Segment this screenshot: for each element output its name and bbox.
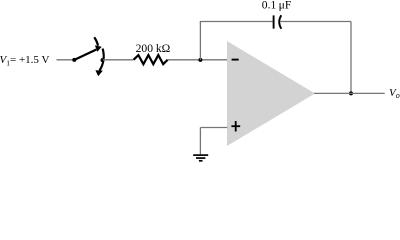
wire feedback top right bbox=[280, 21, 351, 23]
wire resistor to inverting input bbox=[168, 59, 228, 61]
ground bbox=[193, 155, 208, 161]
switch motion arc lower segment bbox=[100, 49, 104, 71]
wire source lead bbox=[57, 59, 75, 61]
node switch pivot bbox=[72, 58, 76, 62]
resistor R1 200k zigzag bbox=[134, 55, 168, 64]
node output junction bbox=[349, 91, 353, 95]
wire noninverting input horizontal bbox=[200, 127, 227, 129]
svg-text:200 kΩ: 200 kΩ bbox=[136, 42, 171, 55]
wire feedback top left bbox=[200, 21, 273, 23]
node switch right contact bbox=[101, 58, 105, 62]
wire feedback vertical right bbox=[350, 22, 352, 94]
op-amp minus sign bbox=[232, 59, 239, 61]
op-amp plus sign bbox=[231, 121, 240, 132]
switch blade arrow S1 bbox=[74, 45, 101, 60]
op-amp U1 triangle bbox=[227, 41, 315, 146]
switch motion arc upper segment bbox=[94, 37, 98, 45]
wire feedback vertical left bbox=[199, 22, 201, 60]
capacitor C1 0.1uF bbox=[274, 15, 282, 28]
wire noninverting input vertical bbox=[199, 128, 201, 155]
svg-text:0.1 μF: 0.1 μF bbox=[262, 0, 292, 12]
node inverting input junction bbox=[198, 58, 202, 62]
switch motion arrowhead bbox=[95, 70, 103, 76]
wire contact to resistor bbox=[103, 59, 133, 61]
wire output bbox=[314, 92, 385, 94]
